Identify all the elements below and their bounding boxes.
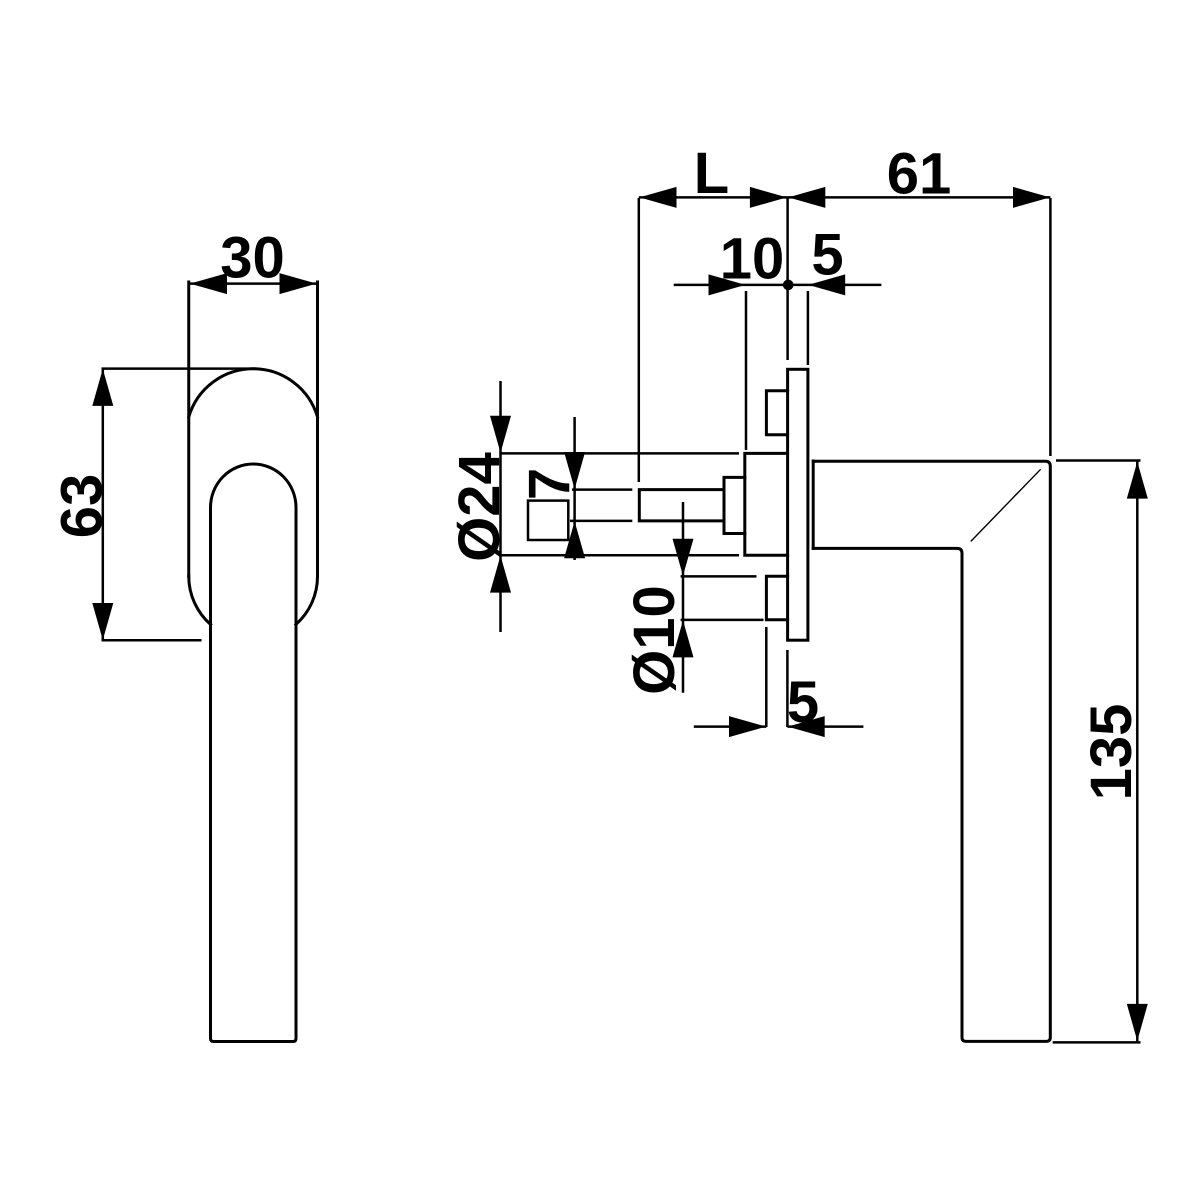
dimension 61: right arrow — [1013, 187, 1050, 208]
side view: upper boss — [766, 391, 787, 435]
dimension 10: line — [674, 284, 882, 287]
dimension 61: right extension line — [1049, 198, 1052, 456]
dimension 5: extension line — [807, 291, 810, 365]
dimension L: line — [639, 196, 788, 199]
svg-text:5: 5 — [787, 670, 819, 735]
dimension 63: extension lines — [102, 369, 257, 641]
dimension 10: arrow — [709, 274, 746, 295]
front view: rosette top arc — [189, 369, 318, 417]
side view: bend chamfer edge — [971, 469, 1041, 541]
dimension 5 bottom: extension lines — [766, 627, 787, 727]
dimension L: left arrow — [640, 187, 677, 208]
side view: handle neck and grip outline — [813, 461, 1050, 1041]
dimension 135: extension lines — [1053, 461, 1141, 1043]
side view: lower boss — [766, 576, 787, 620]
dimension 63: top arrow — [92, 369, 113, 406]
side view: rosette plate — [788, 369, 808, 640]
svg-text:61: 61 — [887, 142, 952, 207]
dimension 10: extension line — [745, 291, 748, 450]
svg-text:Ø24: Ø24 — [447, 452, 512, 562]
svg-text:30: 30 — [220, 226, 285, 291]
dimension 7: bottom arrow — [564, 521, 585, 558]
svg-text:L: L — [694, 141, 729, 206]
front view: rosette bottom arcs — [189, 576, 318, 624]
dimension D10: top arrow — [673, 539, 694, 576]
dimension D24: line — [499, 381, 502, 632]
svg-text:135: 135 — [1079, 704, 1144, 801]
svg-text:5: 5 — [811, 223, 843, 288]
spindle square section — [528, 501, 568, 540]
side view: neck end cap — [812, 461, 815, 548]
dimension D24: bottom arrow — [490, 556, 511, 593]
dimension 7: extension lines — [570, 490, 632, 521]
dimension 30: left arrow — [190, 273, 227, 294]
dimension 63: line — [102, 369, 105, 640]
side view: hub — [745, 453, 788, 555]
dimension 61: middle extension line — [786, 198, 789, 360]
dimension 5: arrow — [808, 274, 845, 295]
dimension 5 bottom: line — [694, 725, 864, 728]
dimension 135: top arrow — [1127, 462, 1148, 499]
dimension 5 bottom: left arrow — [729, 716, 766, 737]
dimension 61: line — [788, 196, 1051, 199]
dimension D10: line — [682, 502, 685, 693]
svg-text:7: 7 — [517, 468, 582, 500]
dimension D24: top arrow — [490, 416, 511, 453]
dimension 135: line — [1136, 461, 1139, 1041]
side view: spindle — [639, 490, 724, 521]
side view: spindle collar — [724, 477, 745, 533]
dimension L: right arrow — [750, 187, 787, 208]
dimension 7: top arrow — [564, 452, 585, 489]
dimension 30: right arrow — [280, 273, 317, 294]
svg-text:Ø10: Ø10 — [622, 585, 687, 695]
dimension 63: bottom arrow — [92, 603, 113, 640]
svg-text:63: 63 — [50, 474, 115, 539]
dimension 135: bottom arrow — [1127, 1004, 1148, 1041]
front view: rosette side/extension lines — [189, 282, 318, 576]
dimension 7: line — [573, 417, 576, 560]
dimension 5 bottom: right arrow — [788, 716, 825, 737]
dimension D10: extension lines — [681, 576, 764, 620]
dimension L: left extension line — [638, 198, 641, 482]
dimension 10/5: dot — [783, 280, 794, 291]
dimension D24: extension lines — [501, 453, 740, 555]
dimension 30: line — [189, 282, 318, 285]
dimension 61: left arrow — [788, 187, 825, 208]
svg-text:10: 10 — [720, 227, 785, 292]
front view: grip outline — [211, 464, 297, 1042]
dimension D10: bottom arrow — [673, 620, 694, 657]
